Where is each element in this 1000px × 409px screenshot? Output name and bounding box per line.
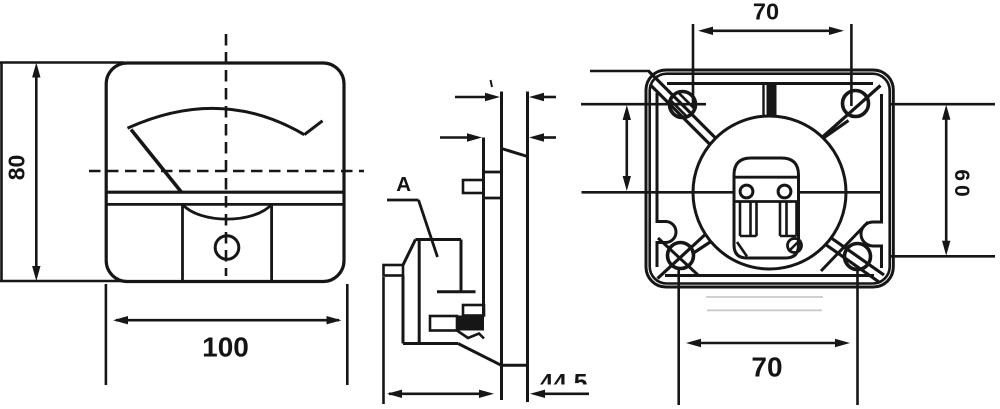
hole BR — [845, 244, 871, 270]
small rect above black block — [463, 305, 484, 316]
top slot thin line — [762, 84, 764, 117]
top edge extension to left — [590, 70, 650, 73]
black terminal block — [457, 316, 484, 331]
block small circle slash — [789, 240, 801, 252]
faint shadow line upper — [706, 296, 823, 298]
screw right — [778, 185, 791, 198]
screw circle — [215, 236, 239, 260]
ext line right (100) — [346, 284, 349, 385]
flange back vertical — [500, 92, 503, 401]
rear box bottom edge — [403, 342, 458, 345]
inner border left with notch — [657, 93, 676, 267]
ext line 60 top right — [890, 103, 996, 106]
left image-edge crop line — [0, 63, 3, 282]
svg-text:44.5: 44.5 — [540, 370, 588, 397]
dim line 44.5 left part — [389, 392, 489, 395]
terminal block inside circle — [734, 158, 802, 258]
rib BL edge 1 (long) — [658, 231, 710, 279]
lower panel left divider — [181, 204, 184, 280]
panel thickness arrow left — [455, 96, 486, 99]
scale plate line upper — [107, 191, 344, 194]
zigzag break line — [457, 331, 484, 339]
panel thickness arrow right — [543, 96, 556, 99]
arrow 70bot left — [686, 339, 701, 347]
left ext line upper (hole center) — [581, 103, 706, 106]
rib TR edge 2 — [819, 121, 849, 142]
dim line 70 bottom — [693, 342, 844, 345]
rear box top edge — [416, 238, 462, 241]
svg-text:100: 100 — [202, 332, 249, 363]
arrow 60 up — [942, 105, 950, 120]
outer plate second contour — [650, 74, 890, 284]
ext line 44.5 left — [382, 277, 385, 404]
ext line bottom (80) — [0, 280, 124, 283]
arrow 70bot right — [835, 339, 850, 347]
rear box top-left slant — [403, 240, 416, 266]
hole TL hatch upper — [678, 92, 695, 109]
inner border right with notch — [861, 94, 882, 268]
left mini dim line — [625, 110, 628, 186]
depth arrow left — [440, 136, 468, 139]
arrow 44.5 leftmost — [387, 390, 402, 398]
bottom diagonal to flange — [458, 344, 501, 366]
arrow up 80 — [32, 63, 40, 78]
lower panel right divider — [270, 204, 273, 280]
hole TR — [843, 91, 869, 117]
left leg cap — [740, 235, 757, 238]
arrow 70top left — [698, 27, 713, 35]
center extension line left segment — [582, 191, 735, 194]
dim line 70 top — [709, 29, 836, 32]
bottom jog — [501, 364, 528, 367]
rear box left edge — [402, 276, 405, 344]
screw left — [740, 185, 753, 198]
ext line top (80) — [0, 61, 124, 64]
dim line 80 — [35, 68, 38, 276]
meter scale arc — [128, 108, 305, 134]
inner border bottom — [665, 274, 874, 277]
horizontal dashed centerline — [89, 170, 364, 173]
depth arrow right — [543, 136, 556, 139]
faint shadow line lower — [707, 309, 822, 311]
ext line 70-bottom left — [677, 268, 680, 405]
vertical dash-dot centerline — [225, 34, 228, 276]
ext line 70-top left — [692, 24, 695, 108]
block small circle — [788, 239, 802, 253]
flange front vertical — [526, 92, 529, 403]
rib BR edge 1 (long) — [827, 235, 884, 275]
front bezel rounded body — [89, 34, 364, 282]
top slot black bar — [767, 84, 777, 118]
outer plate rounded square — [646, 70, 893, 287]
arrow left 100 — [113, 316, 128, 324]
rib TR edge 1 (long) — [822, 86, 881, 138]
ext line 70-bottom right — [856, 270, 859, 405]
arrow 60 down — [942, 241, 950, 256]
block band lower line — [734, 200, 799, 203]
stud upper line — [484, 171, 502, 174]
right leg lines — [779, 202, 782, 237]
svg-text:A: A — [396, 173, 411, 196]
rear box right edge — [460, 240, 463, 292]
corner ribs — [649, 72, 884, 283]
arrow 44.5 middle — [479, 390, 494, 398]
svg-text:80: 80 — [3, 155, 29, 181]
ext line left (100) — [105, 284, 108, 385]
scale end tick — [304, 121, 322, 135]
stud lower line — [484, 197, 502, 200]
stud tab rect — [463, 180, 484, 193]
ext line 70-top right — [850, 24, 853, 106]
arrow mini down — [623, 176, 631, 191]
center extension line right segment — [799, 191, 882, 194]
arrow right 100 — [327, 316, 342, 324]
rib TL edge 2 — [650, 85, 712, 147]
svg-text:70: 70 — [753, 0, 779, 25]
svg-text:60: 60 — [950, 169, 973, 200]
inner border top — [667, 82, 873, 85]
block band upper line — [734, 176, 799, 179]
scale plate line lower — [107, 203, 344, 206]
rib TL edge 1 — [649, 72, 716, 139]
hole BL — [668, 243, 694, 269]
arrow 44.5 right — [530, 390, 545, 398]
rib BL edge 2 — [692, 238, 717, 255]
right leg cap — [780, 235, 797, 238]
lower-left small rect — [430, 316, 457, 331]
rib BR edge 2 — [822, 242, 879, 282]
hole BR cross line — [821, 222, 868, 271]
leader underline of A — [387, 199, 419, 202]
ext line 60 bottom right — [890, 255, 996, 258]
dim line 100 — [116, 319, 339, 322]
central circle — [693, 116, 846, 269]
leader diagonal — [419, 200, 438, 257]
case back vertical — [482, 138, 485, 317]
inner shelf — [437, 290, 476, 293]
dim line 60 — [945, 110, 948, 250]
meter needle — [131, 130, 182, 193]
flange slant — [502, 149, 528, 157]
dim line 44.5 right part — [543, 392, 589, 395]
mounting holes — [668, 91, 871, 270]
hole TL — [670, 92, 696, 118]
tiny centerline tick — [491, 80, 493, 87]
left leg lines — [739, 202, 742, 237]
svg-text:70: 70 — [751, 352, 782, 383]
saddle dip curve — [183, 204, 272, 219]
rear tab (left stud) — [384, 265, 404, 276]
arrow mini up — [623, 105, 631, 120]
rear box inner vertical — [418, 240, 421, 344]
arrow 70top right — [829, 27, 844, 35]
arrow down 80 — [32, 266, 40, 281]
block outline — [734, 158, 799, 258]
hole BL cross line — [658, 238, 698, 275]
block bottom-left diagonal — [737, 242, 747, 257]
hole TL hatch lower — [670, 100, 687, 117]
